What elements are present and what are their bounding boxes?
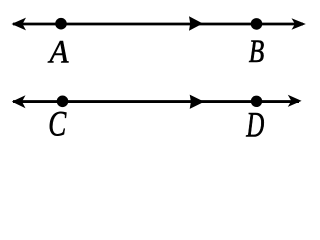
mid arrowhead of line CD bbox=[190, 95, 205, 109]
svg-text:C: C bbox=[48, 104, 66, 144]
point C dot bbox=[57, 96, 69, 108]
mid arrowhead of line AB bbox=[189, 16, 203, 31]
wire line CD shaft bbox=[13, 100, 299, 103]
svg-text:D: D bbox=[246, 105, 265, 145]
point A dot bbox=[55, 18, 67, 30]
right arrowhead of line AB bbox=[292, 18, 306, 30]
left arrowhead of line CD bbox=[12, 95, 26, 108]
point B dot bbox=[251, 18, 263, 30]
left arrowhead of line AB bbox=[12, 18, 27, 31]
wire line AB shaft bbox=[13, 23, 303, 26]
svg-text:B: B bbox=[249, 34, 265, 70]
point D dot bbox=[251, 96, 262, 107]
svg-text:A: A bbox=[48, 34, 70, 70]
right arrowhead of line CD bbox=[288, 95, 302, 107]
